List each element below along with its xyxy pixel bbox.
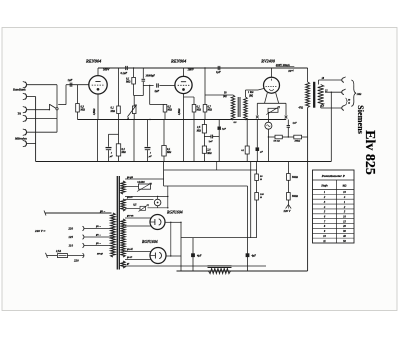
svg-text:MΩ: MΩ xyxy=(207,109,212,112)
svg-text:2μF: 2μF xyxy=(154,90,160,93)
svg-text:MΩ: MΩ xyxy=(196,130,201,133)
svg-text:Ω: Ω xyxy=(260,178,262,181)
svg-text:REN904: REN904 xyxy=(86,59,102,64)
svg-text:Potentiometer P: Potentiometer P xyxy=(322,174,346,178)
svg-text:RV2400: RV2400 xyxy=(261,58,275,63)
svg-text:4μF: 4μF xyxy=(196,255,202,258)
svg-text:P: P xyxy=(127,118,129,121)
svg-text:4μF: 4μF xyxy=(251,255,257,258)
svg-text:Stufe: Stufe xyxy=(321,184,328,188)
svg-text:RGN1604: RGN1604 xyxy=(167,211,183,215)
svg-text:MΩ: MΩ xyxy=(110,110,115,113)
svg-text:μF: μF xyxy=(259,151,263,154)
svg-text:gn→: gn→ xyxy=(95,225,102,228)
svg-text:1: 1 xyxy=(150,152,151,155)
svg-text:MΩ: MΩ xyxy=(167,109,172,112)
svg-text:≈2400: ≈2400 xyxy=(137,180,145,184)
svg-text:LT: LT xyxy=(320,105,325,108)
svg-text:Elv 825: Elv 825 xyxy=(362,130,377,175)
svg-text:50kΩ: 50kΩ xyxy=(292,195,298,198)
svg-text:μμ-4: μμ-4 xyxy=(288,69,295,72)
svg-text:220 V: 220 V xyxy=(283,209,292,213)
svg-text:Rundfunk: Rundfunk xyxy=(13,88,26,92)
svg-text:sw-gr: sw-gr xyxy=(96,253,104,256)
svg-text:(M): (M) xyxy=(249,94,253,97)
svg-text:1μF: 1μF xyxy=(293,122,298,125)
svg-text:(m): (m) xyxy=(223,95,227,98)
svg-text:1μF: 1μF xyxy=(68,78,73,82)
svg-text:0,1: 0,1 xyxy=(241,149,244,152)
svg-text:Ω: Ω xyxy=(348,102,350,105)
svg-text:TA: TA xyxy=(18,112,22,116)
svg-text:1: 1 xyxy=(111,152,112,155)
svg-text:1μF: 1μF xyxy=(209,140,214,143)
svg-text:REN904: REN904 xyxy=(171,59,187,64)
svg-text:RGN1604: RGN1604 xyxy=(142,240,158,244)
svg-text:μF: μF xyxy=(148,155,152,158)
svg-text:ge-rt: ge-rt xyxy=(126,256,132,259)
svg-text:110: 110 xyxy=(69,244,74,248)
svg-text:MΩ: MΩ xyxy=(80,109,85,112)
svg-text:MΩ: MΩ xyxy=(125,81,130,84)
svg-text:180V: 180V xyxy=(188,67,195,71)
svg-text:Mikrofon: Mikrofon xyxy=(14,136,27,140)
svg-text:Ω: Ω xyxy=(260,196,262,199)
svg-text:220: 220 xyxy=(73,259,79,263)
svg-text:gn-bl: gn-bl xyxy=(126,248,133,251)
svg-text:125: 125 xyxy=(68,235,73,239)
svg-text:4,8kΩ: 4,8kΩ xyxy=(93,108,96,116)
svg-text:2,5A: 2,5A xyxy=(55,250,61,253)
svg-text:MΩ: MΩ xyxy=(196,109,201,112)
svg-text:gn→: gn→ xyxy=(95,234,102,237)
svg-text:20kΩ: 20kΩ xyxy=(294,140,301,143)
svg-text:14Ω: 14Ω xyxy=(357,93,362,96)
svg-text:MΩ: MΩ xyxy=(166,151,171,154)
svg-text:400V 40mA: 400V 40mA xyxy=(275,63,290,67)
svg-text:MΩ: MΩ xyxy=(121,151,126,154)
svg-text:gn-ws: gn-ws xyxy=(126,214,133,217)
svg-text:1μF: 1μF xyxy=(222,128,227,131)
svg-text:360V: 360V xyxy=(102,68,110,72)
svg-text:1μF: 1μF xyxy=(216,71,221,74)
svg-text:4,8kΩ: 4,8kΩ xyxy=(178,108,181,116)
svg-text:gn→: gn→ xyxy=(99,210,106,213)
svg-text:10000pF: 10000pF xyxy=(146,75,156,78)
svg-text:240 V ≈: 240 V ≈ xyxy=(34,229,45,233)
svg-text:0,1μF: 0,1μF xyxy=(121,72,128,75)
svg-text:ge-gn: ge-gn xyxy=(126,176,134,179)
svg-text:MΩ: MΩ xyxy=(206,152,211,155)
svg-text:gn→: gn→ xyxy=(95,242,102,245)
svg-text:50 kΩ: 50 kΩ xyxy=(274,140,280,143)
svg-text:47Ω: 47Ω xyxy=(298,107,304,110)
svg-text:50kΩ: 50kΩ xyxy=(292,176,298,179)
svg-text:μF: μF xyxy=(109,155,113,158)
svg-text:220: 220 xyxy=(67,227,73,231)
